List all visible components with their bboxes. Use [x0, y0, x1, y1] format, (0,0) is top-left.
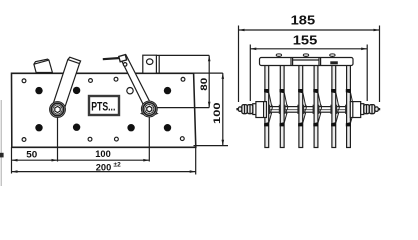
svg-text:185: 185	[291, 13, 316, 28]
svg-text:100: 100	[95, 149, 111, 159]
svg-text:80: 80	[199, 78, 210, 91]
svg-text:200: 200	[96, 162, 112, 172]
svg-text:50: 50	[26, 149, 37, 159]
svg-text:PTS...: PTS...	[91, 102, 115, 114]
svg-text:155: 155	[293, 33, 318, 48]
svg-text:±2: ±2	[114, 162, 122, 169]
svg-text:100: 100	[212, 102, 223, 124]
